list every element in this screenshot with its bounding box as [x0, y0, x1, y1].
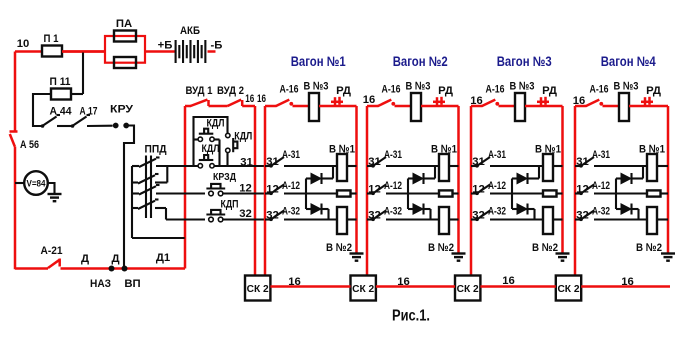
ground wagon 2: [452, 254, 466, 261]
svg-text:СК 2: СК 2: [557, 284, 579, 295]
svg-text:А-16: А-16: [280, 84, 299, 96]
svg-text:ПА: ПА: [116, 18, 132, 30]
wire line 12 wagon 3: [490, 192, 543, 194]
svg-text:КРУ: КРУ: [110, 104, 134, 116]
voltmeter V=84: [15, 182, 24, 184]
svg-text:А-32: А-32: [384, 206, 402, 218]
junction box SK2-1: [245, 276, 270, 301]
wire branch to P11: [82, 53, 84, 95]
wire line 32 cab: [166, 218, 205, 220]
svg-text:В №2: В №2: [428, 242, 454, 254]
svg-text:10: 10: [17, 38, 30, 50]
wire VUD1-VUD2: [209, 105, 228, 108]
diode junction wagon 4: [615, 179, 617, 210]
svg-text:В №2: В №2: [532, 242, 558, 254]
diode VD1 wagon 3: [512, 177, 517, 179]
svg-text:16: 16: [245, 93, 254, 105]
svg-text:А-12: А-12: [384, 180, 402, 192]
svg-text:А-12: А-12: [488, 180, 506, 192]
diode VD2 wagon 2: [408, 208, 413, 210]
svg-text:Д1: Д1: [156, 252, 170, 264]
svg-text:РД: РД: [646, 85, 661, 97]
svg-text:А 56: А 56: [20, 139, 39, 151]
svg-text:16: 16: [470, 95, 482, 107]
svg-text:А-32: А-32: [488, 206, 506, 218]
wire right edge wagon 1: [355, 106, 358, 253]
svg-text:16: 16: [502, 275, 515, 287]
resistor wagon 3: [543, 190, 557, 196]
svg-text:РД: РД: [542, 85, 557, 97]
wire button link: [218, 140, 220, 167]
svg-text:32: 32: [239, 208, 252, 220]
svg-text:Вагон №2: Вагон №2: [393, 54, 448, 69]
wire riser wagon 3: [470, 106, 473, 276]
wire V3 to RD wagon 4: [629, 105, 668, 108]
wire bus SK2 2-3: [376, 285, 455, 288]
breaker A-21: [48, 260, 60, 268]
svg-text:СК 2: СК 2: [352, 284, 374, 295]
wire PA left: [62, 50, 105, 53]
fuse block PA: [105, 36, 145, 63]
wire line 31 cab: [156, 165, 198, 167]
svg-text:16: 16: [288, 276, 301, 288]
svg-text:ВУД 2: ВУД 2: [217, 85, 244, 97]
wire A17-KRU: [87, 125, 113, 127]
svg-text:V=84: V=84: [27, 177, 47, 188]
svg-text:П 11: П 11: [50, 76, 71, 88]
svg-text:16: 16: [363, 94, 375, 106]
svg-text:А-32: А-32: [282, 206, 300, 218]
wire left vertical lower: [14, 147, 17, 270]
wire riser wagon 1: [264, 106, 267, 276]
svg-text:12: 12: [239, 183, 252, 195]
svg-text:А 17: А 17: [80, 106, 98, 118]
svg-text:КРЗД: КРЗД: [213, 172, 236, 183]
svg-text:+Б: +Б: [158, 40, 173, 52]
wire line 31 wagon 2: [386, 165, 439, 167]
wire V3 to RD wagon 1: [319, 105, 357, 108]
svg-text:РД: РД: [438, 85, 453, 97]
svg-text:СК 2: СК 2: [457, 284, 479, 295]
wire bus SK2 4 to end: [581, 285, 670, 288]
wire riser wagon 2: [366, 106, 369, 276]
button box enclosure: [194, 117, 228, 166]
wire line 32 wagon 4: [594, 218, 647, 220]
wire voltmeter to ground: [48, 183, 55, 194]
wire P11 to A44: [33, 94, 51, 126]
svg-text:В №3: В №3: [614, 81, 639, 93]
svg-text:НАЗ: НАЗ: [90, 278, 111, 290]
svg-text:Вагон №3: Вагон №3: [497, 54, 552, 69]
svg-text:А-16: А-16: [486, 84, 505, 96]
wire V3 to RD wagon 2: [421, 105, 459, 108]
wire line 32 wagon 2: [386, 218, 439, 220]
junction box SK2-3: [455, 276, 480, 301]
wire drop to SK2-1: [254, 106, 257, 276]
wire A44-A17: [57, 125, 73, 127]
wire battery minus stub: [208, 50, 216, 53]
diode junction wagon 1: [305, 179, 307, 210]
wire line 32 wagon 1: [284, 218, 337, 220]
svg-text:А-21: А-21: [41, 245, 63, 257]
wire top feed: [15, 50, 42, 53]
diode VD1 wagon 4: [616, 177, 621, 179]
svg-text:А-31: А-31: [488, 149, 506, 161]
wire line 31 wagon 3: [490, 165, 543, 167]
wire bottom to D1: [61, 267, 186, 270]
wire line 32 cab right: [222, 218, 268, 220]
svg-text:-Б: -Б: [211, 40, 223, 52]
svg-text:31: 31: [240, 157, 253, 169]
wire line 12 wagon 1: [284, 192, 337, 194]
wire VUD2 to corner: [242, 105, 255, 108]
svg-text:В №3: В №3: [304, 81, 329, 93]
svg-text:А 44: А 44: [50, 106, 73, 118]
svg-text:ВУД 1: ВУД 1: [186, 85, 213, 97]
svg-text:КДЛ: КДЛ: [202, 143, 220, 155]
fuse P11: [51, 89, 71, 100]
diode VD2 wagon 1: [306, 208, 311, 210]
breaker A17: [71, 124, 75, 128]
wire line 12 cab: [156, 192, 205, 194]
resistor wagon 2: [439, 190, 453, 196]
svg-text:А-32: А-32: [592, 206, 610, 218]
wire right edge wagon 3: [561, 106, 564, 253]
svg-text:В №3: В №3: [406, 81, 431, 93]
diode junction wagon 2: [407, 179, 409, 210]
wire riser D1: [184, 106, 187, 269]
wire line 12 wagon 4: [594, 192, 647, 194]
svg-text:А-31: А-31: [282, 149, 300, 161]
breaker A44: [41, 124, 45, 128]
wire left vertical: [14, 52, 17, 132]
svg-text:В №2: В №2: [326, 242, 352, 254]
svg-text:Вагон №4: Вагон №4: [601, 54, 656, 69]
svg-text:ППД: ППД: [145, 144, 167, 156]
svg-text:А-16: А-16: [382, 84, 401, 96]
wire right edge wagon 4: [667, 106, 670, 253]
junction box SK2-2: [351, 276, 376, 301]
svg-text:ВП: ВП: [124, 278, 140, 290]
svg-text:А-31: А-31: [592, 149, 610, 161]
wire KRU to PPD feed: [124, 126, 134, 269]
ground wagon 4: [661, 254, 675, 261]
svg-text:Д: Д: [111, 253, 119, 265]
ground wagon 1: [350, 254, 364, 261]
junction box SK2-4: [556, 276, 581, 301]
wire line 31 wagon 1: [284, 165, 337, 167]
diode VD1 wagon 2: [408, 177, 413, 179]
svg-text:РД: РД: [336, 85, 351, 97]
resistor wagon 1: [337, 190, 351, 196]
svg-text:В №2: В №2: [636, 242, 662, 254]
ground voltmeter: [48, 194, 62, 201]
wire bus SK2 3-4: [480, 285, 555, 288]
breaker A56: [10, 130, 18, 133]
svg-text:КДП: КДП: [221, 199, 239, 211]
fuse P1: [42, 46, 62, 57]
wire bus SK2 1-2: [270, 285, 350, 288]
svg-text:В №3: В №3: [510, 81, 535, 93]
wire right edge wagon 2: [457, 106, 460, 253]
diode junction wagon 3: [511, 179, 513, 210]
wire line 12 wagon 2: [386, 192, 439, 194]
wire line 32 wagon 3: [490, 218, 543, 220]
resistor wagon 4: [647, 190, 661, 196]
diode VD2 wagon 4: [616, 208, 621, 210]
svg-text:Вагон №1: Вагон №1: [291, 54, 346, 69]
svg-text:Д: Д: [81, 253, 89, 265]
svg-text:А-12: А-12: [282, 180, 300, 192]
svg-text:Рис.1.: Рис.1.: [392, 308, 430, 325]
wire V3 to RD wagon 3: [525, 105, 563, 108]
diode VD1 wagon 1: [306, 177, 311, 179]
ground wagon 3: [556, 254, 570, 261]
wire line 31 wagon 4: [594, 165, 647, 167]
wire bottom red bus: [15, 267, 48, 270]
svg-text:А-12: А-12: [592, 180, 610, 192]
svg-text:16: 16: [397, 276, 410, 288]
svg-text:А-16: А-16: [590, 84, 609, 96]
svg-text:АКБ: АКБ: [180, 25, 200, 37]
svg-text:16: 16: [257, 93, 266, 105]
svg-text:СК 2: СК 2: [247, 284, 269, 295]
svg-text:П 1: П 1: [44, 33, 59, 45]
wire line 12 cab right: [222, 192, 268, 194]
wire PA to battery: [145, 50, 176, 53]
diode VD2 wagon 3: [512, 208, 517, 210]
svg-text:А-31: А-31: [384, 149, 402, 161]
svg-text:16: 16: [621, 276, 634, 288]
svg-text:16: 16: [573, 95, 585, 107]
wire riser wagon 4: [574, 106, 577, 276]
